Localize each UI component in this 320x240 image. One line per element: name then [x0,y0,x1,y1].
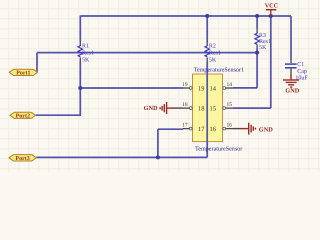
svg-text:14: 14 [210,85,217,92]
wire R2 upper lead [206,16,208,42]
capacitor C1 [285,59,308,82]
junction node bottom wire to pin17 [156,155,160,159]
svg-text:Port3: Port3 [15,156,29,162]
wire R3 lower lead to node [256,49,258,54]
wire node R3 down to pin14 [233,53,257,88]
svg-text:15: 15 [210,105,217,112]
U1 pin 16 [210,122,234,132]
svg-text:19: 19 [198,85,205,92]
svg-text:Res1: Res1 [209,51,221,57]
svg-text:15: 15 [227,102,233,108]
junction node on rail at R3 [255,14,259,18]
svg-text:R2: R2 [209,44,216,50]
ground under C1 [283,75,299,88]
junction node on rail at VCC [269,14,273,18]
svg-text:19: 19 [182,82,188,88]
ground at pin 18 [160,102,173,114]
svg-text:18: 18 [198,105,205,112]
U1 pin 19 [182,82,204,93]
wire R2 lower lead through box to bottom [36,62,207,157]
U1 pin 15 [210,102,234,113]
component U1 TemperatureSensor body [193,74,223,142]
svg-text:17: 17 [198,126,205,133]
wire pin16 stub to GND [233,128,242,130]
wire pin15 riser to VCC rail [233,16,271,109]
junction node Port1/R3/pin14 [255,51,259,55]
svg-text:5K: 5K [209,57,217,63]
svg-text:GND: GND [285,87,299,94]
svg-text:16: 16 [210,126,217,133]
svg-text:GND: GND [144,105,158,112]
svg-text:C1: C1 [297,62,304,68]
svg-text:TemperatureSensor: TemperatureSensor [195,146,242,153]
wire R3 upper lead [256,16,258,29]
resistor R3 [255,29,271,51]
wire Port2 horizontal [36,114,81,116]
junction node R1/Port2/pin19 [78,86,82,90]
port Port1 [9,69,37,77]
wire C1 drop from rail [290,16,292,60]
wire R1 upper lead [79,16,81,42]
svg-text:17: 17 [182,122,188,128]
svg-text:Cap: Cap [297,69,307,75]
svg-text:VCC: VCC [265,3,278,10]
U1 pin 14 [210,82,234,93]
port Port3 [9,155,36,163]
wire pin18 stub to GND [173,107,184,109]
svg-text:Port1: Port1 [16,71,30,77]
svg-text:R1: R1 [82,44,89,50]
svg-text:Res1: Res1 [82,51,94,57]
resistor R2 [205,41,221,63]
ground at pin 16 [241,123,255,135]
wire pin17 riser from bottom wire [158,129,183,157]
svg-text:5K: 5K [82,57,90,63]
wire Port1 riser and horizontal to node at R3 [37,53,257,73]
wire pin19 to node [80,87,183,89]
resistor R1 [78,41,94,63]
wire VCC top rail [80,15,291,17]
svg-text:14: 14 [227,82,233,88]
junction node on rail at R2 [205,14,209,18]
wire R1 bottom to Port2 corner [79,62,81,115]
svg-text:TemperatureSensor1: TemperatureSensor1 [194,67,244,74]
svg-text:Port2: Port2 [16,114,30,120]
svg-text:5K: 5K [259,45,267,51]
svg-text:16: 16 [227,122,233,128]
svg-text:18: 18 [182,102,188,108]
power port VCC [265,3,278,17]
U1 pin 18 [182,102,204,113]
port Port2 [10,112,36,120]
U1 pin 17 [182,122,205,132]
svg-text:GND: GND [259,126,273,133]
